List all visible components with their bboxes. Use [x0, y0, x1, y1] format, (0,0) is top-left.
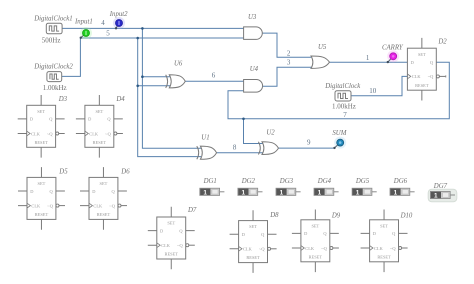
svg-text:D3: D3 [58, 96, 68, 103]
AND gate U4 [244, 80, 263, 93]
junction U6 bottom input [136, 85, 139, 88]
svg-text:D8: D8 [269, 212, 279, 219]
clock source DigitalClock2 [47, 72, 62, 82]
svg-text:SUM: SUM [332, 130, 346, 137]
svg-text:CLK: CLK [31, 203, 41, 208]
wire net 9 (U2 output to SUM probe) [279, 147, 335, 149]
svg-text:~Q: ~Q [177, 243, 183, 248]
svg-text:U3: U3 [248, 14, 257, 21]
svg-text:D: D [373, 231, 376, 236]
XOR gate U1 [200, 146, 216, 159]
svg-text:CLK: CLK [412, 74, 422, 79]
junction net4/branch [141, 27, 144, 30]
wire branch net 7 down to U2 top input [244, 119, 263, 144]
svg-text:DG6: DG6 [393, 178, 408, 185]
svg-text:U6: U6 [174, 60, 183, 67]
svg-text:U5: U5 [318, 44, 327, 51]
flip-flop D9 [292, 210, 339, 273]
wire net 10 (DigitalClock to D2 CLK input) [351, 76, 407, 95]
svg-text:1.00kHz: 1.00kHz [43, 84, 67, 92]
svg-text:D6: D6 [120, 168, 130, 175]
flip-flop D5 [18, 167, 65, 230]
svg-text:SET: SET [37, 109, 45, 114]
svg-text:SET: SET [100, 181, 108, 186]
svg-text:1: 1 [356, 189, 360, 196]
svg-text:DG3: DG3 [279, 178, 294, 185]
svg-text:2: 2 [287, 50, 291, 58]
svg-text:1: 1 [394, 189, 398, 196]
wire vertical branch from net 4 down to U1 top input [142, 28, 201, 148]
svg-text:SET: SET [95, 109, 103, 114]
probe CARRY (magenta) [387, 50, 400, 63]
svg-text:CLK: CLK [305, 246, 315, 251]
svg-text:1: 1 [242, 189, 246, 196]
svg-text:CLK: CLK [93, 203, 103, 208]
svg-text:RESET: RESET [165, 252, 179, 257]
svg-text:D2: D2 [437, 38, 447, 45]
svg-text:CLK: CLK [31, 131, 41, 136]
svg-text:1: 1 [366, 54, 370, 62]
svg-text:CARRY: CARRY [382, 44, 404, 51]
svg-text:DG4: DG4 [317, 178, 332, 185]
indicator DG5 [352, 188, 377, 196]
svg-text:D: D [92, 189, 95, 194]
indicator DG1 [200, 188, 225, 196]
svg-text:3: 3 [287, 58, 291, 66]
XOR gate U6 [169, 75, 185, 88]
AND gate U3 [244, 27, 263, 40]
svg-text:~Q: ~Q [428, 74, 434, 79]
wire net 8 (U1 output to U2 bottom input) [217, 152, 263, 154]
svg-text:DG2: DG2 [241, 178, 256, 185]
svg-text:1.00kHz: 1.00kHz [332, 102, 356, 110]
svg-text:DG5: DG5 [355, 178, 370, 185]
svg-text:~Q: ~Q [259, 247, 265, 252]
wire net 2 (U3 output to U5 top input) [262, 33, 311, 57]
svg-text:~Q: ~Q [47, 131, 53, 136]
svg-text:~Q: ~Q [47, 203, 53, 208]
svg-text:~Q: ~Q [321, 246, 327, 251]
wire net 4 (DigitalClock1 output to U3 top input) [62, 27, 244, 29]
svg-text:U1: U1 [201, 134, 209, 141]
svg-text:500Hz: 500Hz [42, 36, 61, 44]
svg-text:SET: SET [418, 52, 426, 57]
svg-text:1: 1 [280, 189, 284, 196]
svg-text:DigitalClock2: DigitalClock2 [33, 63, 73, 70]
indicator DG6 [390, 188, 415, 196]
svg-text:RESET: RESET [97, 212, 111, 217]
svg-text:CLK: CLK [374, 246, 384, 251]
svg-text:D: D [160, 228, 163, 233]
svg-text:RESET: RESET [35, 212, 49, 217]
svg-text:4: 4 [101, 19, 105, 27]
svg-text:D: D [304, 231, 307, 236]
indicator DG4 [314, 188, 339, 196]
OR gate U5 [311, 56, 330, 68]
svg-text:CLK: CLK [243, 247, 253, 252]
probe Input2 (blue) [113, 17, 125, 29]
svg-text:U4: U4 [250, 66, 259, 73]
indicator DG7 [430, 191, 455, 199]
svg-text:Input2: Input2 [109, 11, 128, 18]
probe SUM (teal blue) [333, 137, 346, 149]
selection highlight behind DG7 [428, 189, 457, 202]
flip-flop D6 [80, 167, 127, 230]
svg-text:D7: D7 [187, 207, 197, 214]
svg-text:SET: SET [311, 223, 319, 228]
wire branch to U6 top input [142, 76, 170, 78]
svg-text:~Q: ~Q [105, 131, 111, 136]
svg-text:SET: SET [167, 221, 175, 226]
svg-text:RESET: RESET [309, 254, 323, 259]
svg-text:~Q: ~Q [390, 246, 396, 251]
wire net 5 (DigitalClock2 output, riser, to U3 bottom input) [61, 38, 243, 76]
junction U6 top input [141, 75, 144, 78]
svg-text:Input1: Input1 [74, 18, 93, 25]
svg-text:RESET: RESET [93, 140, 107, 145]
svg-text:D: D [30, 117, 33, 122]
svg-text:6: 6 [212, 72, 216, 80]
wire net 1 (U5 output to D2 D input) [330, 61, 408, 63]
svg-text:RESET: RESET [34, 140, 48, 145]
clock source DigitalClock1 [46, 23, 62, 34]
flip-flop D2 [407, 38, 445, 101]
svg-text:RESET: RESET [415, 83, 429, 88]
flip-flop D4 [76, 95, 123, 158]
svg-text:D: D [242, 232, 245, 237]
svg-text:D10: D10 [400, 212, 413, 219]
svg-text:8: 8 [233, 144, 237, 152]
indicator DG2 [238, 188, 263, 196]
wire net 6 (U6 output to U4 top input) [185, 80, 243, 82]
svg-text:U2: U2 [266, 130, 275, 137]
svg-text:1: 1 [318, 189, 322, 196]
svg-text:SET: SET [38, 181, 46, 186]
svg-text:CLK: CLK [89, 131, 99, 136]
wire branch to U6 bottom input [138, 85, 171, 87]
clock source DigitalClock [335, 91, 351, 101]
svg-text:D: D [411, 60, 414, 65]
svg-text:DG7: DG7 [433, 183, 448, 190]
wire vertical branch from net 5 down to U1 bottom input [138, 38, 201, 157]
svg-text:1: 1 [434, 193, 438, 200]
indicator DG3 [276, 188, 301, 196]
svg-text:SET: SET [249, 224, 257, 229]
flip-flop D10 [361, 210, 408, 273]
wire net 7 (D2 Q feedback loop) [228, 62, 449, 119]
junction net5/branch [136, 37, 139, 40]
svg-text:7: 7 [343, 111, 347, 119]
flip-flop D3 [18, 95, 65, 158]
svg-text:9: 9 [307, 138, 311, 146]
svg-text:~Q: ~Q [109, 203, 115, 208]
svg-text:1: 1 [203, 189, 207, 196]
flip-flop D7 [148, 207, 195, 270]
svg-text:D4: D4 [115, 96, 125, 103]
wire net 3 (U4 output to U5 bottom input) [263, 67, 311, 86]
svg-text:DigitalClock1: DigitalClock1 [33, 15, 73, 22]
svg-text:D5: D5 [58, 168, 68, 175]
XOR gate U2 [262, 142, 279, 155]
svg-text:10: 10 [369, 87, 377, 95]
svg-text:D: D [88, 117, 91, 122]
flip-flop D8 [230, 210, 277, 273]
svg-text:RESET: RESET [377, 254, 391, 259]
svg-text:DigitalClock: DigitalClock [324, 83, 361, 90]
svg-text:RESET: RESET [246, 255, 260, 260]
junction net7 to U2 branch [242, 118, 245, 121]
svg-text:5: 5 [106, 30, 110, 38]
svg-text:D9: D9 [331, 212, 341, 219]
svg-text:DG1: DG1 [203, 178, 217, 185]
probe Input1 (green) [80, 27, 92, 39]
svg-text:D: D [30, 189, 33, 194]
svg-text:SET: SET [380, 223, 388, 228]
unconnected pin tick on D2 ~Q [445, 75, 447, 77]
svg-text:CLK: CLK [161, 243, 171, 248]
